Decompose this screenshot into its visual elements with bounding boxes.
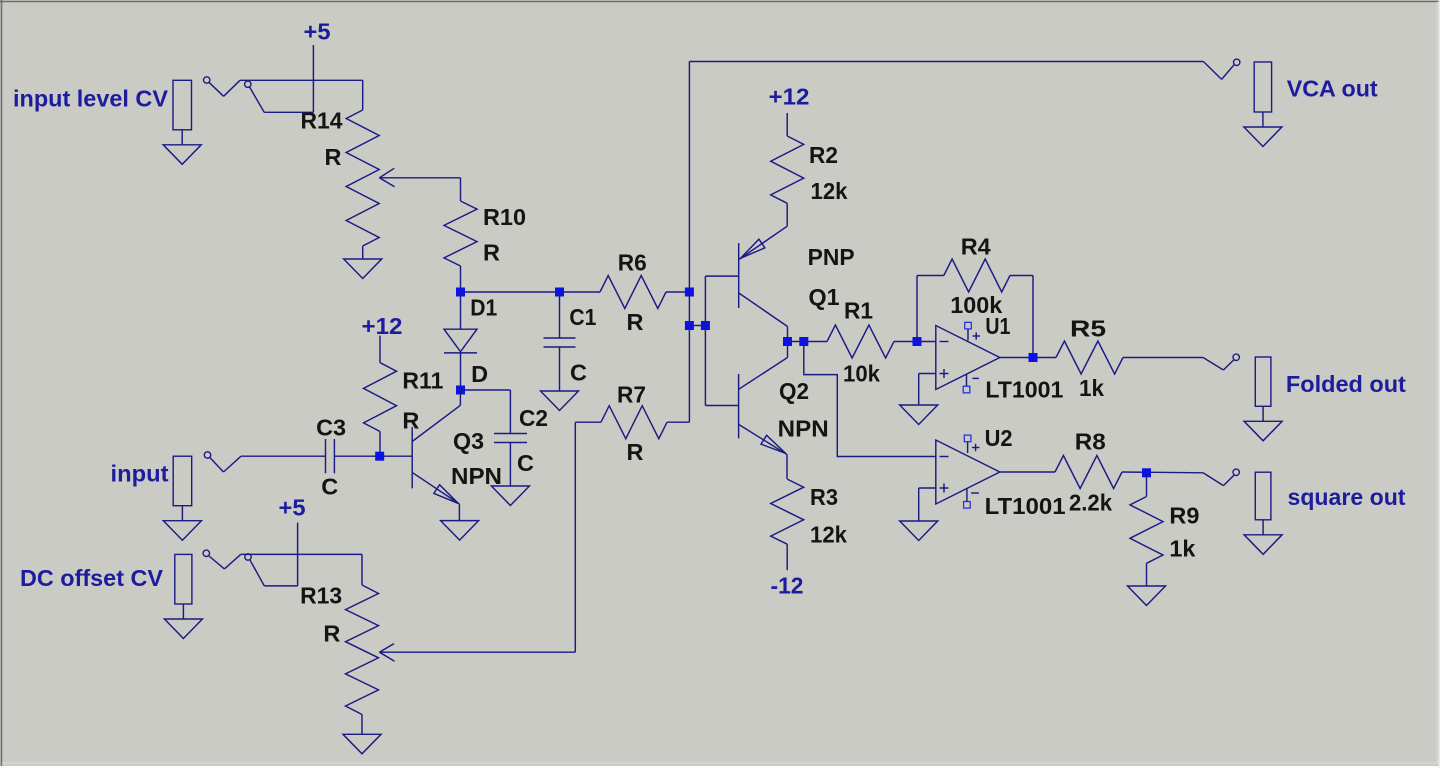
- svg-text:R10: R10: [483, 204, 526, 230]
- svg-text:R2: R2: [809, 142, 838, 168]
- svg-text:-12: -12: [771, 573, 804, 599]
- svg-text:C3: C3: [316, 414, 346, 440]
- svg-text:input: input: [111, 461, 169, 487]
- svg-text:R14: R14: [301, 108, 343, 134]
- svg-text:10k: 10k: [843, 361, 881, 387]
- svg-text:D: D: [471, 361, 488, 387]
- svg-text:U1: U1: [985, 313, 1010, 339]
- svg-text:PNP: PNP: [808, 244, 855, 270]
- svg-text:R: R: [323, 621, 340, 647]
- svg-text:+12: +12: [769, 84, 810, 110]
- svg-text:12k: 12k: [810, 522, 848, 548]
- svg-text:DC offset CV: DC offset CV: [20, 565, 163, 591]
- svg-text:U2: U2: [985, 425, 1013, 451]
- svg-text:R11: R11: [402, 368, 443, 394]
- svg-text:R7: R7: [617, 382, 646, 408]
- svg-text:1k: 1k: [1169, 536, 1196, 562]
- svg-text:R5: R5: [1070, 316, 1106, 342]
- svg-text:Q3: Q3: [453, 428, 484, 454]
- svg-text:C: C: [570, 360, 587, 386]
- svg-text:R: R: [627, 439, 644, 465]
- svg-text:Folded out: Folded out: [1286, 371, 1406, 397]
- svg-text:R: R: [627, 309, 644, 335]
- svg-text:R9: R9: [1169, 503, 1199, 529]
- svg-text:+5: +5: [304, 19, 331, 45]
- svg-text:LT1001: LT1001: [985, 493, 1066, 519]
- svg-text:C2: C2: [519, 405, 548, 431]
- svg-text:2.2k: 2.2k: [1069, 490, 1113, 516]
- svg-text:Q1: Q1: [809, 284, 840, 310]
- svg-text:LT1001: LT1001: [985, 377, 1063, 403]
- svg-text:1k: 1k: [1079, 375, 1105, 401]
- svg-text:R4: R4: [961, 234, 991, 260]
- svg-text:square out: square out: [1288, 484, 1406, 510]
- svg-text:R: R: [402, 408, 419, 434]
- svg-text:+5: +5: [279, 494, 306, 520]
- svg-text:R1: R1: [844, 298, 873, 324]
- svg-text:R6: R6: [618, 250, 647, 276]
- svg-text:C1: C1: [569, 304, 596, 330]
- svg-text:NPN: NPN: [778, 416, 829, 442]
- svg-text:+12: +12: [362, 313, 403, 339]
- svg-text:C: C: [517, 450, 534, 476]
- svg-text:Q2: Q2: [779, 378, 809, 404]
- svg-text:12k: 12k: [811, 178, 849, 204]
- svg-text:D1: D1: [470, 295, 497, 321]
- svg-text:R: R: [325, 144, 342, 170]
- svg-text:R8: R8: [1075, 429, 1106, 455]
- svg-text:C: C: [321, 474, 338, 500]
- svg-text:input level CV: input level CV: [13, 86, 168, 112]
- svg-text:R13: R13: [300, 583, 342, 609]
- svg-text:NPN: NPN: [451, 463, 502, 489]
- svg-text:VCA out: VCA out: [1287, 76, 1378, 102]
- svg-text:R: R: [483, 240, 500, 266]
- svg-text:R3: R3: [810, 484, 838, 510]
